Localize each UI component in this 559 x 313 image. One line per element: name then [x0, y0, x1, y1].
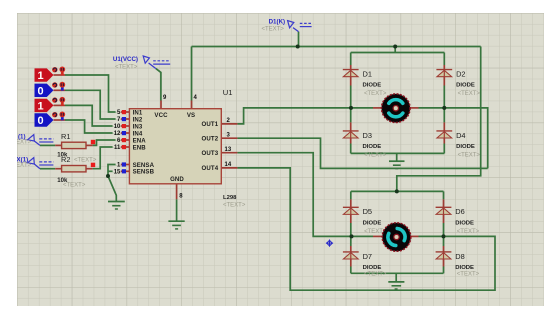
- pin stub logicstate4: [54, 119, 66, 121]
- op-chip U1 L298 body: [129, 109, 221, 184]
- pin stub motor1 left: [373, 107, 382, 109]
- svg-text:<TEXT>: <TEXT>: [458, 153, 481, 159]
- wire SENSA to node: [108, 165, 118, 177]
- wire VCC terminal to pin9: [156, 69, 161, 101]
- wire D5 lower lead: [350, 223, 352, 236]
- resistor R1 labels: [57, 132, 70, 158]
- wire VS pin4 to top bus: [191, 47, 193, 101]
- wire D8 upper lead: [443, 236, 445, 246]
- svg-text:D7: D7: [363, 252, 372, 261]
- svg-text:<TEXT>: <TEXT>: [115, 65, 138, 71]
- svg-text:1: 1: [37, 101, 43, 113]
- svg-text:D4: D4: [456, 131, 465, 140]
- pin stub R2 left: [55, 168, 61, 170]
- svg-text:DIODE: DIODE: [363, 83, 382, 89]
- wire bridge1 mid rail right: [419, 107, 445, 109]
- pin stub D1 bottom: [350, 77, 352, 86]
- resistor R1: [62, 142, 86, 148]
- pin stub SENSB: [118, 170, 130, 172]
- svg-text:15: 15: [114, 170, 121, 176]
- wire bridge1 bottom rail: [351, 152, 445, 154]
- pin stub D3 bottom: [350, 138, 352, 144]
- generator 1 symbol: [28, 135, 54, 146]
- svg-text:IN1: IN1: [133, 109, 143, 116]
- wire D6 upper lead: [443, 191, 445, 199]
- R2 state square: [91, 163, 95, 167]
- svg-text:R1: R1: [61, 132, 70, 141]
- pin stub VCC pin9: [160, 101, 162, 109]
- svg-text:D5: D5: [363, 207, 372, 216]
- junction dot SENS node: [106, 174, 110, 178]
- svg-text:<TEXT>: <TEXT>: [458, 91, 481, 97]
- wire pin8 to ground4: [176, 199, 178, 221]
- pin stub D7 bottom: [350, 260, 352, 267]
- pin stub D7 top: [350, 246, 352, 252]
- svg-text:<TEXT>: <TEXT>: [457, 272, 480, 278]
- pin stub IN1: [118, 111, 130, 113]
- wire logicstate3 to IN3: [65, 105, 118, 126]
- wire SENSB to node: [108, 170, 118, 172]
- svg-text:11: 11: [114, 145, 121, 151]
- pin stub D8 bottom: [443, 260, 445, 267]
- resistor R2 labels: [57, 155, 97, 188]
- generator 2 symbol: [28, 158, 54, 169]
- wire D6 lower lead: [443, 223, 445, 236]
- svg-text:D1: D1: [363, 70, 372, 79]
- pin stub motor2 left: [373, 235, 382, 237]
- pin stub R2 right: [86, 168, 93, 170]
- power terminal D1(K): [288, 21, 312, 32]
- wire top supply bus: [192, 46, 481, 48]
- diode D5: [343, 207, 359, 214]
- U1 value label L298: [223, 195, 237, 201]
- ground bridge2: [388, 282, 404, 289]
- pin stub D1 top: [350, 65, 352, 70]
- svg-text:U1: U1: [223, 88, 233, 97]
- wire bridge1 mid rail left: [351, 107, 373, 109]
- pin stub OUT4 pin14: [221, 167, 237, 169]
- pin stub D6 top: [443, 199, 445, 207]
- motor M1: [382, 94, 411, 123]
- wire OUT4 run: [237, 168, 495, 290]
- wire OUT2 run: [237, 138, 487, 168]
- pin stub GND pin8: [176, 184, 178, 199]
- wire D3 upper lead: [350, 108, 352, 123]
- svg-text:<TEXT>: <TEXT>: [457, 229, 480, 235]
- pin stub ENA: [118, 139, 130, 141]
- terminal D1(K) labels: [262, 19, 286, 33]
- ground near SENS node: [108, 202, 125, 210]
- wire OUT3 run: [237, 153, 351, 237]
- diode D4: [436, 131, 452, 138]
- svg-text:D2: D2: [456, 70, 465, 79]
- wire bridge2 top rail: [351, 190, 444, 192]
- svg-text:<TEXT>: <TEXT>: [364, 91, 387, 97]
- svg-text:0: 0: [37, 115, 43, 127]
- svg-text:D3: D3: [363, 131, 372, 140]
- wire D1K terminal drop: [298, 32, 300, 47]
- origin marker blue diamond: [326, 240, 333, 247]
- pin number backplates: [113, 107, 121, 172]
- svg-text:L298: L298: [223, 195, 237, 201]
- svg-text:DIODE: DIODE: [456, 144, 475, 150]
- diode D1: [343, 70, 359, 77]
- pin stub motor2 right: [410, 235, 419, 237]
- wire bridge1 right node to OUT2 riser: [444, 108, 487, 168]
- junction dot bridge2 right node: [442, 234, 446, 238]
- pin stub IN2: [118, 118, 130, 120]
- wire D7 upper lead: [350, 236, 352, 246]
- U1 reference label: [223, 88, 233, 97]
- U1 input pin state squares: [122, 110, 126, 173]
- resistor R2: [62, 166, 86, 172]
- pin stub R1 left: [55, 144, 61, 146]
- svg-text:DIODE: DIODE: [456, 83, 475, 89]
- wire R1 to ENA: [93, 140, 118, 145]
- wire top bridge top rail: [351, 52, 445, 54]
- U1 text placeholder: [223, 202, 246, 208]
- svg-text:12: 12: [114, 131, 121, 137]
- svg-text:D8: D8: [455, 252, 464, 261]
- pin stub D2 top: [443, 65, 445, 70]
- diode D8: [436, 252, 452, 259]
- wire logicstate2 to IN2: [65, 90, 118, 119]
- wire generator2 to R2: [40, 168, 55, 170]
- pin stub OUT2 pin3: [221, 137, 237, 139]
- U1 pin name labels: [133, 109, 219, 183]
- wire bridge2 bottom rail: [351, 272, 444, 274]
- svg-text:DIODE: DIODE: [455, 265, 474, 271]
- diode D2: [436, 70, 452, 77]
- wire D2 lower lead: [443, 86, 445, 108]
- svg-text:VS: VS: [187, 112, 195, 119]
- motor M2: [382, 223, 411, 252]
- svg-text:14: 14: [225, 162, 232, 168]
- wire D4 lower lead: [443, 144, 445, 154]
- ground pin8: [168, 221, 184, 229]
- pin stub D4 bottom: [443, 138, 445, 144]
- wire bridge2 mid rail left: [351, 235, 373, 237]
- pin stub motor1 right: [410, 107, 419, 109]
- svg-text:0: 0: [37, 86, 43, 98]
- svg-text:D6: D6: [455, 207, 464, 216]
- svg-text:IN3: IN3: [133, 123, 143, 130]
- pin stub logicstate2: [54, 89, 66, 91]
- pin stub D5 bottom: [350, 215, 352, 224]
- pin stub logicstate1: [54, 74, 66, 76]
- pin stub logicstate3: [54, 104, 66, 106]
- svg-text:ENB: ENB: [133, 144, 147, 151]
- logicstate 1: [35, 67, 66, 83]
- junction dot bridge2 left node: [350, 234, 354, 238]
- svg-text:OUT2: OUT2: [202, 136, 219, 143]
- wire D1 lower lead: [350, 86, 352, 108]
- wire generator1 to R1: [40, 144, 55, 146]
- junction dot supply at D1K terminal: [296, 45, 300, 49]
- wire supply right column down: [397, 47, 481, 192]
- wire OUT1 to bridge1 left node: [237, 108, 351, 124]
- svg-text:<TEXT>: <TEXT>: [364, 153, 387, 159]
- svg-text:DIODE: DIODE: [455, 220, 474, 226]
- svg-text:ENA: ENA: [133, 137, 147, 144]
- svg-text:<TEXT>: <TEXT>: [223, 202, 246, 208]
- ground bridge1: [389, 161, 405, 168]
- junction dot supply at bridge1 feed: [393, 45, 397, 49]
- wire D7 lower lead: [350, 267, 352, 274]
- logicstate 2: [35, 82, 66, 98]
- svg-text:OUT3: OUT3: [202, 150, 219, 157]
- generator 1 labels: [9, 133, 32, 145]
- svg-text:1: 1: [37, 70, 43, 82]
- pin stub OUT3 pin13: [221, 152, 237, 154]
- svg-text:13: 13: [225, 147, 232, 153]
- diode D6: [436, 207, 452, 214]
- logicstate 3: [35, 97, 66, 113]
- svg-text:<TEXT>: <TEXT>: [262, 27, 285, 33]
- pin stub D4 top: [443, 122, 445, 130]
- junction dot bridge1 right node: [442, 106, 446, 110]
- terminal U1(VCC) labels: [113, 56, 138, 71]
- svg-text:IN2: IN2: [133, 116, 143, 123]
- pin stub D6 bottom: [443, 215, 445, 224]
- svg-text:IN4: IN4: [133, 130, 143, 137]
- junction dot bridge1 left node: [349, 106, 353, 110]
- logicstate 4: [35, 112, 66, 128]
- svg-text:VCC: VCC: [154, 112, 168, 119]
- svg-text:U1(VCC): U1(VCC): [113, 56, 138, 63]
- svg-text:OUT1: OUT1: [202, 121, 219, 128]
- wire node to ground1: [108, 176, 116, 202]
- pin stub IN3: [118, 125, 130, 127]
- generator 2 labels: [9, 156, 32, 168]
- wire D5 upper lead: [350, 191, 352, 199]
- svg-text:<TEXT>: <TEXT>: [63, 182, 86, 188]
- pin stub D5 top: [350, 199, 352, 207]
- diode labels left column: [363, 70, 373, 261]
- pin stub ENB: [118, 146, 130, 148]
- wire logicstate4 to IN4: [65, 120, 118, 133]
- wire D4 upper lead: [443, 108, 445, 123]
- svg-text:DIODE: DIODE: [363, 144, 382, 150]
- svg-text:OUT4: OUT4: [202, 165, 219, 172]
- wire bridge2 mid rail right: [419, 235, 444, 237]
- power terminal U1(VCC): [143, 56, 170, 69]
- pin stub OUT1 pin2: [221, 123, 237, 125]
- pin stub D3 top: [350, 122, 352, 130]
- wire logicstate1 to IN1: [65, 75, 118, 112]
- R1 state square: [91, 140, 95, 144]
- svg-text:D1(K): D1(K): [269, 19, 286, 26]
- svg-text:GND: GND: [170, 176, 184, 183]
- svg-text:SENSB: SENSB: [133, 169, 155, 176]
- wire D3 lower lead: [350, 144, 352, 154]
- pin stub D2 bottom: [443, 77, 445, 86]
- wire D1 upper lead: [350, 53, 352, 66]
- pin stub D8 top: [443, 246, 445, 252]
- pin stub VS pin4: [191, 101, 193, 109]
- pin stub R1 right: [86, 144, 93, 146]
- wire top bridge feed stub: [394, 47, 396, 53]
- diode D7: [343, 252, 359, 259]
- wire bridge1 ground stem: [396, 153, 398, 161]
- svg-text:10: 10: [114, 124, 121, 130]
- wire R2 to ENB: [93, 147, 118, 169]
- pin stub IN4: [118, 132, 130, 134]
- svg-text:<TEXT>: <TEXT>: [364, 272, 387, 278]
- wire D2 upper lead: [443, 53, 445, 66]
- junction dot bridge2 feed: [395, 189, 399, 193]
- svg-text:DIODE: DIODE: [363, 265, 382, 271]
- wire D8 lower lead: [443, 267, 445, 274]
- diode D3: [343, 131, 359, 138]
- svg-text:<TEXT>: <TEXT>: [74, 158, 97, 164]
- svg-text:R2: R2: [61, 155, 70, 164]
- wire bridge2 ground stem: [395, 273, 397, 282]
- svg-text:DIODE: DIODE: [363, 220, 382, 226]
- pin stub SENSA: [118, 164, 130, 166]
